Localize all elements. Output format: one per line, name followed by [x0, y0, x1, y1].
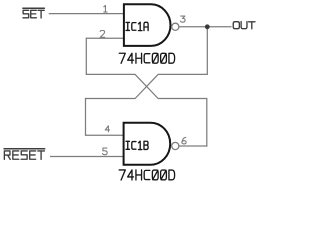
wire SET to IC1A pin 1	[49, 13, 124, 15]
designator IC1A	[126, 22, 148, 30]
pin number 3	[180, 16, 185, 22]
pin number 2	[100, 31, 105, 38]
wire crossover diagonal lower-left to upper-right	[135, 74, 158, 98]
value 74HC00D (IC1B)	[119, 170, 174, 180]
NAND gate IC1B (74HC00D)	[124, 123, 171, 165]
pin number 1	[104, 5, 107, 12]
wire IC1B pin 4 horizontal	[85, 134, 124, 136]
pin number 5	[103, 148, 108, 155]
wire crossover diagonal upper-left to lower-right	[135, 74, 158, 98]
wire pin6 vertical up	[206, 99, 208, 147]
wire upper rail right segment	[158, 73, 208, 75]
wire lower rail right segment	[158, 98, 208, 100]
wire lower rail left segment	[85, 98, 135, 100]
wire upper rail left segment	[86, 73, 136, 75]
op-amp style body: NAND gate IC1A (74HC00D)	[124, 4, 171, 46]
wire pin2 vertical drop	[85, 38, 87, 75]
wire IC1B output pin 6	[179, 145, 207, 147]
wire vertical from OUT junction down	[206, 27, 208, 75]
wire IC1A output to OUT	[179, 26, 232, 28]
designator IC1B	[126, 141, 148, 149]
inversion bubble IC1B output	[172, 142, 179, 149]
pin number 4	[105, 126, 109, 132]
net label RESET	[4, 151, 44, 159]
inversion bubble IC1A output	[172, 23, 179, 30]
pin number 6	[182, 137, 186, 143]
net label OUT	[233, 22, 255, 29]
RESET overline	[4, 148, 46, 150]
value 74HC00D (IC1A)	[119, 53, 174, 63]
net label SET	[23, 10, 44, 18]
junction dot at OUT node	[205, 24, 210, 29]
wire IC1A pin 2 horizontal	[86, 37, 123, 39]
SET overline	[22, 7, 45, 9]
wire RESET to IC1B pin 5	[50, 156, 124, 158]
wire pin4 vertical	[85, 98, 87, 135]
